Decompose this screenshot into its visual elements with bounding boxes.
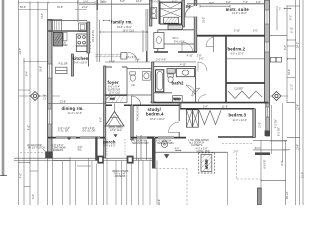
svg-text:foyer: foyer [108,80,119,85]
family interior dim line [100,31,147,33]
wic top wall [158,30,195,52]
bottom-left text clusters [27,144,82,152]
study rotated text [137,105,140,121]
dimension text top row [20,1,231,9]
svg-text:12'-0" CLG: 12'-0" CLG [109,92,121,95]
bedrm3 right wall [253,109,256,138]
study labels [146,107,165,121]
thin vertical right of wall [272,103,283,162]
powder sink [143,71,151,80]
family room left thin double line [97,0,112,62]
hall vertical x180 [180,103,182,109]
extension above kitchen [77,0,79,22]
porch right corner wall [147,137,154,139]
bedrm2 left wall [225,36,227,103]
rotated dim text left [20,13,45,199]
dining window texts [58,127,96,133]
porch column left [97,156,103,164]
bedrm2 label [228,47,246,56]
entry left rotated text [100,117,103,122]
svg-text:CLOSET: CLOSET [234,88,244,91]
dim text above divider [234,29,258,32]
pantry box [56,67,67,73]
mstr suite left wall [194,0,197,52]
extra left margin texts [19,48,47,130]
svg-text:14'-0" x 18'-0": 14'-0" x 18'-0" [232,12,247,15]
bifold doors [199,110,221,124]
front door arcs [105,96,141,106]
svg-text:18'-0": 18'-0" [203,17,206,23]
text above equipment box [196,148,210,153]
svg-text:kitchen: kitchen [73,56,89,61]
svg-text:12'-0" CLG: 12'-0" CLG [110,129,122,132]
svg-text:5'-0": 5'-0" [253,29,258,32]
svg-text:2'-0": 2'-0" [234,151,239,154]
linen box [168,25,183,29]
powder label [132,84,136,87]
family rm label [111,19,135,32]
bedrm3 rotated dim [259,122,262,128]
bath2 right wall [195,66,197,102]
svg-text:6'-0": 6'-0" [100,117,103,122]
gable text [109,127,124,133]
svg-text:19'-6" x 16'-9": 19'-6" x 16'-9" [117,26,132,29]
wall right of tub [182,0,185,27]
svg-text:13'-4": 13'-4" [41,13,44,19]
exterior wall right [265,0,270,103]
svg-text:SQ.: SQ. [78,148,82,151]
svg-text:9'-8" x 15'-0": 9'-8" x 15'-0" [74,62,88,65]
svg-text:16'-8": 16'-8" [57,6,63,9]
powder toilet [130,72,136,81]
bath2 top wall [154,65,196,67]
dining front windows [56,136,100,138]
svg-text:A/C PAD: A/C PAD [206,159,209,169]
bottom right wall [258,188,262,205]
study right wall [178,103,180,138]
svg-text:bedrm.3: bedrm.3 [229,113,247,118]
entry top wall [106,104,132,106]
svg-text:9'-4" x 6'-0": 9'-4" x 6'-0" [104,145,116,148]
wic door arc [182,42,193,53]
hall center text + arc [199,58,204,61]
svg-text:5'-4": 5'-4" [203,106,208,109]
mstr suite label [226,7,250,15]
hall wall y102.5 [154,102,268,104]
svg-text:FRENCH DRS: FRENCH DRS [137,105,140,121]
porch label [103,140,116,148]
porch fan [161,141,167,147]
wardrobe box [173,96,183,103]
svg-text:family rm.: family rm. [111,19,133,24]
extra top dim texts [120,0,281,10]
svg-text:WARD: WARD [173,98,180,101]
dishwasher [121,53,127,59]
svg-text:P. SL. DR.: P. SL. DR. [58,129,69,132]
dining front wall [48,137,105,139]
svg-text:pdr.: pdr. [132,84,136,87]
family right wall [150,0,152,26]
kitchen label [59,56,89,66]
dashed eave left [20,152,45,154]
windows right wall [265,10,268,52]
mstr/bedrm2 divider wall [197,35,265,37]
svg-text:4'-2 7/8": 4'-2 7/8" [274,119,277,128]
right margin dim verticals [277,0,303,205]
svg-text:11'-0" x 12'-0": 11'-0" x 12'-0" [233,119,248,122]
study windows [137,136,174,138]
svg-text:24'-0": 24'-0" [296,42,299,48]
study door arc [169,122,180,133]
porch roof dashes [107,139,125,156]
svg-text:DO. SL. DR.: DO. SL. DR. [83,129,97,132]
hatched equipment box [199,153,215,173]
svg-text:REF: REF [63,44,68,47]
border left double line [0,0,7,176]
dining dim text [60,101,66,104]
svg-text:5'-0": 5'-0" [172,1,177,4]
svg-text:W.I.C.: W.I.C. [173,37,180,40]
svg-text:coat: coat [110,97,115,100]
dimension line mid-left [19,60,48,90]
hall wall x213 [213,36,215,52]
svg-text:9'-2": 9'-2" [290,15,293,20]
island [76,42,90,52]
svg-text:P.SL.DR: P.SL.DR [59,63,68,66]
svg-text:6'-8": 6'-8" [120,0,125,3]
bottom-left dim ticks [19,161,91,187]
svg-text:5'-4": 5'-4" [284,45,287,50]
top wall mstr suite [187,3,264,5]
rotated text right of bedrm3 wall [274,119,277,128]
bath2 tub [156,70,164,92]
right top ticks [284,6,300,9]
foyer top wall [106,66,127,68]
right margin extra ticks [270,36,300,138]
svg-text:9'-0" x 12'-0": 9'-0" x 12'-0" [231,52,245,55]
svg-text:12'-8": 12'-8" [296,104,299,110]
svg-text:bedrm.2: bedrm.2 [228,47,246,52]
entry right wall [131,105,133,140]
bedrm3 top dim text [203,106,228,109]
svg-text:10'-0" x 10'-0": 10'-0" x 10'-0" [150,118,165,121]
svg-text:bedrm.4: bedrm.4 [146,112,164,117]
family room top wall line [79,3,150,5]
bath2 linen [167,68,175,73]
svg-text:21'-4": 21'-4" [82,6,88,9]
svg-text:50'-0": 50'-0" [20,6,26,9]
right exterior wall lower [266,103,270,136]
kitchen upper wall [48,30,87,32]
svg-text:4'-10": 4'-10" [109,61,115,64]
dining label [62,106,84,115]
bath2 toilet [168,74,174,83]
svg-text:8'-2 7/8": 8'-2 7/8" [278,127,281,136]
dim line mstr top [200,5,230,8]
window key diamond right [270,92,289,101]
corner block left [45,152,53,159]
wall kitchen/family [87,22,90,53]
patio line y141 [253,140,287,142]
patio edge right of porch [156,151,228,153]
svg-text:16'-2": 16'-2" [288,69,291,75]
svg-text:28'-8": 28'-8" [158,199,161,205]
window sills outside right [270,57,281,62]
top wall kitchen [48,20,87,22]
dimension extension verticals left [19,0,70,205]
hall door arc [206,37,214,47]
svg-text:12'-0": 12'-0" [150,101,156,104]
hall line above bath2 [154,61,196,63]
svg-text:11'-4" x 12'-0": 11'-4" x 12'-0" [68,112,83,115]
solid vertical x227 [227,152,229,205]
study top wall [133,104,180,106]
bottom right verticals [261,140,286,205]
svg-text:8'-0": 8'-0" [281,161,284,166]
bedrm3 bottom wall [218,136,253,138]
mstr bath tub block [159,0,182,24]
svg-text:21'-8": 21'-8" [60,101,66,104]
svg-text:4'-10": 4'-10" [187,55,193,58]
porch column right [127,156,134,164]
svg-text:7'-4": 7'-4" [243,1,248,4]
svg-text:bath2: bath2 [172,80,185,85]
wic bottom wall [154,51,197,53]
svg-text:21'-0": 21'-0" [302,172,305,178]
svg-text:11'-8": 11'-8" [222,106,228,109]
dimension line top-left [19,1,95,11]
mstr bath sinks [151,8,157,19]
svg-text:24'-6": 24'-6" [101,1,107,4]
range / stove [76,34,87,46]
svg-text:dining rm.: dining rm. [62,106,84,111]
arrow tick under porch line [165,154,169,158]
porch tick text [175,147,180,150]
svg-text:3'-0": 3'-0" [32,194,35,199]
dashed overhang bedrm3 [222,143,252,145]
small door arc hall right [198,95,206,103]
steps text [113,170,129,178]
fire rated text [188,139,209,147]
svg-text:EGRESS: EGRESS [53,149,63,152]
foyer label [108,80,122,95]
wic label [173,37,180,40]
dark wall segment [255,152,270,155]
svg-text:11'-2": 11'-2" [291,84,294,90]
svg-text:9'-4": 9'-4" [26,71,29,76]
refrigerator [53,32,62,46]
roof diagonal [43,149,50,157]
mstr suite entry door arc [185,5,197,17]
bath2 left wall [152,62,154,103]
svg-text:CONC. PAD: CONC. PAD [197,150,210,153]
top tiny texts family [84,1,107,4]
foyer top dim texts [109,59,140,64]
closet label + rod [234,88,244,91]
svg-text:4'-0": 4'-0" [20,173,23,178]
foyer/entry divider wall [105,94,128,96]
pantry cabinet box [52,20,61,31]
second dim line y150 [253,149,287,151]
bedrm2 closet wall [226,82,265,84]
toilet room mstr [154,33,164,49]
svg-text:16'-8": 16'-8" [40,66,43,72]
dim tick right y150 [255,141,290,150]
window gap lower right [266,107,269,117]
svg-text:2'-8": 2'-8" [186,5,191,8]
svg-text:12'-0": 12'-0" [259,122,262,128]
porch left wall [95,137,97,161]
svg-text:10'-0": 10'-0" [19,48,22,54]
svg-text:12'-8": 12'-8" [44,94,47,100]
suite rotated dim [203,17,206,23]
bottom-left extension verticals [63,158,158,205]
hall closets [186,110,198,127]
powder room [127,67,152,95]
nook east wall [143,9,148,52]
bedrm2 window line [226,58,265,60]
window gaps left wall [48,64,51,124]
rotated text bottom right of bedrm3 [278,127,281,136]
kitchen lower counter [95,54,122,57]
svg-text:16'-0 VLTD: 16'-0 VLTD [92,30,95,42]
window key diamond left [19,92,60,101]
text 9-6 [187,55,202,58]
svg-text:5'-10": 5'-10" [291,27,294,33]
svg-text:6'-8 7/8": 6'-8 7/8" [264,160,267,169]
wic dim text [174,41,185,44]
study window labels [131,140,174,146]
side cabinet [63,32,67,40]
porch inner verticals [137,135,147,160]
dining rm top dim line [48,102,106,104]
bottom right dim line [261,180,285,181]
svg-text:9'-6": 9'-6" [226,1,231,4]
svg-text:9'-10": 9'-10" [234,29,240,32]
porch front double line [14,158,152,160]
dashed patio lines [156,154,262,205]
svg-text:4'-0": 4'-0" [28,125,31,130]
bedrm3 top wall [180,108,254,110]
bath2 upper dim text [156,58,186,66]
svg-text:4'-0": 4'-0" [175,147,180,150]
oven cabinet box [79,23,87,32]
pantry wall [71,54,73,76]
rotated texts bottom right [158,160,289,205]
svg-text:28'-10": 28'-10" [286,191,289,199]
dim arrow family [103,20,110,21]
svg-text:4'-10": 4'-10" [180,64,186,67]
svg-text:5'-4": 5'-4" [135,59,140,62]
svg-text:5'-4": 5'-4" [84,1,89,4]
svg-text:5'-0": 5'-0" [199,58,204,61]
hall line y62 [105,53,150,63]
svg-text:10'-2": 10'-2" [136,0,142,3]
rotated text beside wall [92,30,95,42]
coat closet [106,96,127,103]
wall below kitchen/family [88,53,90,67]
nook text cluster [126,56,137,59]
misc top mstr dim [287,39,296,40]
exterior wall left [48,20,52,159]
bath2 bottom wall [154,92,172,94]
bath2 vanity [176,69,194,77]
foyer left wall [104,66,106,158]
bath2 label [172,80,185,85]
bath2 door arcs [186,85,200,97]
svg-text:4'-6": 4'-6" [256,1,261,4]
patio edge tick [176,150,181,151]
svg-text:W/ 1/2" FLITCH: W/ 1/2" FLITCH [28,147,45,150]
bedrm3 label [229,113,248,122]
right rotated texts [284,42,305,178]
study top dim text [150,101,156,104]
svg-text:2'-0" 4'-8": 2'-0" 4'-8" [156,58,166,61]
entry gable triangle [105,104,124,127]
window center ticks [67,134,118,140]
svg-text:13'-6": 13'-6" [296,144,299,150]
study front wall [131,137,186,139]
